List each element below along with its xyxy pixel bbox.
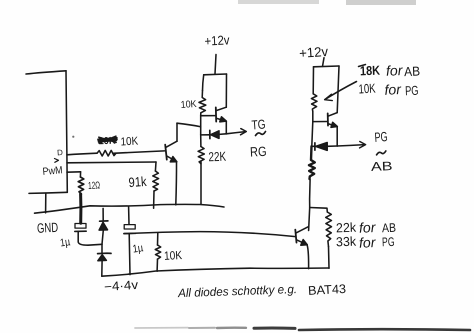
diode D2 cathode bar <box>98 252 111 254</box>
wire C2 to neg rail <box>128 234 131 275</box>
scanner bar bottom light <box>189 327 215 329</box>
transistor Q4 base bar <box>295 230 296 243</box>
svg-text:10K: 10K <box>164 248 183 263</box>
label tilde <box>256 132 266 136</box>
resistor 91K <box>153 171 159 191</box>
Q1 emitter <box>167 156 176 161</box>
wire base node down (right) <box>312 122 313 147</box>
wire3 box to 12R <box>67 171 81 173</box>
svg-text:33k: 33k <box>336 234 357 250</box>
wire3 corner down <box>79 172 81 177</box>
transistor Q2 base bar <box>215 107 217 121</box>
wire rail to cap C2 <box>128 207 130 225</box>
stray ink dot <box>72 136 74 138</box>
Q2 collector <box>216 107 226 110</box>
ground rail <box>35 204 225 213</box>
svg-text:BAT43: BAT43 <box>308 282 347 298</box>
wire D2 to neg rail <box>101 261 103 277</box>
Q1 collector wire to base node <box>177 123 201 127</box>
Q1 emitter wire to rail <box>175 162 178 205</box>
negative rail <box>102 268 329 276</box>
transistor Q1 base bar <box>165 145 167 160</box>
svg-text:RG: RG <box>250 144 267 160</box>
svg-text:1µ: 1µ <box>59 236 71 249</box>
elbow to 22K/33K resistor <box>310 208 328 213</box>
Q2 emitter arrowhead <box>220 117 227 122</box>
svg-text:GND: GND <box>37 220 59 236</box>
wire emitter to out node (right) <box>336 127 338 146</box>
diode D4 triangle <box>316 143 328 151</box>
scanner bar bottom faint <box>135 327 188 329</box>
svg-text:PG: PG <box>374 129 388 145</box>
Q3 emitter <box>328 124 336 127</box>
svg-text:10K: 10K <box>358 81 376 97</box>
svg-text:PwM: PwM <box>42 164 63 178</box>
scanner smudge top left <box>238 0 319 4</box>
scanner bar bottom right <box>299 328 470 331</box>
wire squiggle to elbow <box>309 180 312 208</box>
output arrow (middle) <box>226 132 245 134</box>
annotation arrow to resistor <box>325 82 357 100</box>
collector loop top (middle) <box>204 73 227 76</box>
wire y233 to resistor 10K bottom <box>157 233 159 245</box>
label tilde <box>377 151 386 155</box>
svg-text:−4·4v: −4·4v <box>104 278 140 294</box>
svg-text:1µ: 1µ <box>132 242 145 255</box>
wire diode to out node (right) <box>327 145 337 147</box>
wire node to diode D4 <box>312 145 314 147</box>
Q4 emitter wire to neg rail <box>307 245 309 269</box>
wire C1 to diode node <box>78 232 102 246</box>
resistor R 10K (series, horizontal) <box>97 150 116 156</box>
capacitor C2 top plate <box>124 225 135 229</box>
wire2 box to 91K <box>67 161 156 164</box>
Q4 emitter <box>297 240 307 244</box>
Q2 base wire <box>201 115 216 117</box>
resistor 18K/10K (right) <box>311 94 317 112</box>
diode D4 cathode bar <box>314 143 316 150</box>
collector loop top (right) <box>314 65 340 68</box>
wire node to diode D2 <box>101 244 103 253</box>
Q2 emitter <box>216 118 225 121</box>
Q4 collector <box>296 227 308 233</box>
wire 10K to base node <box>200 116 202 135</box>
svg-text:TG: TG <box>251 116 266 132</box>
capacitor C2 bottom plate <box>124 232 136 234</box>
diode D1 cathode bar <box>100 220 108 222</box>
Q3 base wire <box>313 121 328 123</box>
Q1 emitter arrowhead <box>170 157 177 162</box>
wire base rail to Q4 (long) <box>124 232 296 237</box>
wire D pin to resistor <box>67 153 97 155</box>
annotation arrowhead <box>325 94 333 100</box>
resistor 22K (middle) <box>198 147 204 164</box>
scanner smudge top right <box>346 0 416 5</box>
Q1 collector <box>166 141 177 147</box>
resistor 22K/33K <box>326 212 332 247</box>
Q4 emitter arrowhead <box>301 240 307 246</box>
svg-text:AB: AB <box>371 159 393 174</box>
PWM IC ground stub <box>45 193 47 213</box>
wire 22K to rail <box>200 162 202 205</box>
wire elbow down to Q4 collector <box>309 208 310 231</box>
svg-text:22K: 22K <box>208 149 226 165</box>
pin chevron <box>55 159 59 163</box>
wire resistor to neg rail <box>328 247 331 269</box>
svg-text:AB: AB <box>382 221 396 235</box>
wire 91K to rail <box>153 191 155 208</box>
PWM IC box bottom edge <box>29 192 67 193</box>
resistor 10K (middle) <box>199 91 206 116</box>
loop left branch (right) <box>312 67 314 94</box>
wire 10K to neg rail <box>156 259 158 271</box>
scanner bar bottom dark <box>254 326 295 329</box>
wire emitter to out node <box>225 121 227 134</box>
diode D3 cathode bar <box>209 130 211 138</box>
wire base node to 22K <box>200 135 202 147</box>
svg-text:PG: PG <box>405 83 419 98</box>
PWM IC box right edge <box>66 71 67 193</box>
wire resistor to base node (right) <box>312 112 314 122</box>
scribbled-out label 10K <box>98 136 117 148</box>
loop right branch (right) <box>337 66 339 113</box>
resistor 10K (bottom left) <box>155 245 160 259</box>
PWM IC box top edge <box>26 71 66 74</box>
svg-text:10K: 10K <box>120 136 138 149</box>
output arrowhead (right) <box>360 142 366 148</box>
wire2 corner down to 91K <box>154 162 157 171</box>
capacitor C1 top plate <box>75 224 86 229</box>
svg-text:AB: AB <box>404 64 421 80</box>
transistor Q3 base bar <box>327 113 329 125</box>
output arrow (right) <box>337 145 365 146</box>
thick wire 12R to cap C1 <box>79 194 82 223</box>
output arrowhead <box>241 129 247 135</box>
svg-text:10K: 10K <box>180 99 197 111</box>
capacitor C1 bottom plate <box>75 230 86 232</box>
svg-text:91k: 91k <box>128 174 147 190</box>
diode D2 triangle <box>98 255 107 261</box>
wire diode to out node <box>219 133 226 136</box>
loop left branch <box>203 75 204 91</box>
wire +12v to loop <box>215 55 216 74</box>
Q1 collector wire up <box>176 123 178 141</box>
wire base node to diode <box>201 134 210 136</box>
svg-text:for: for <box>359 234 377 251</box>
svg-text:All diodes schottky e.g.: All diodes schottky e.g. <box>177 282 297 300</box>
loop right branch <box>225 74 227 107</box>
Q3 emitter arrowhead <box>331 122 337 127</box>
diode D1 triangle <box>99 222 107 230</box>
scanner bar bottom mid <box>217 326 246 329</box>
wire resistor to Q1 base <box>113 151 165 153</box>
wire D1 to node <box>102 230 103 244</box>
resistor 12R <box>78 177 84 194</box>
wire +12v to loop (right) <box>323 58 325 67</box>
wire rail to diode D1 <box>102 208 104 220</box>
svg-text:12Ω: 12Ω <box>88 180 101 192</box>
svg-text:for: for <box>384 81 402 98</box>
diode D3 triangle <box>211 131 219 139</box>
svg-text:D: D <box>57 148 64 157</box>
svg-text:for: for <box>386 62 404 79</box>
svg-text:PG: PG <box>382 235 395 249</box>
strike on 1 <box>359 65 366 67</box>
Q3 collector <box>328 113 337 117</box>
heavy squiggle on right branch <box>309 146 315 179</box>
svg-text:+12v: +12v <box>204 32 230 48</box>
